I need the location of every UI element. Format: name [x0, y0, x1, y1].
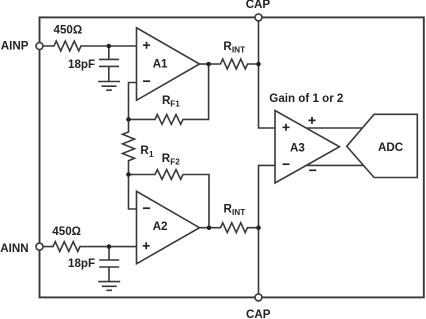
junction A1 output — [206, 62, 211, 67]
terminal CAP top — [255, 14, 262, 21]
A3 output − polarity mark — [309, 169, 316, 171]
wire A3 positive output to ADC — [306, 127, 362, 129]
junction A2 output — [207, 225, 212, 230]
wire A3 negative output to ADC — [306, 164, 363, 166]
ADC block — [347, 114, 418, 177]
wire A2 output from apex — [200, 227, 210, 229]
wire A1 output from apex — [200, 63, 209, 65]
svg-text:F1: F1 — [170, 99, 180, 108]
svg-text:INT: INT — [232, 45, 245, 54]
resistor 450Ω (top) with AINP wire to A1 + input — [43, 41, 137, 51]
wire outer boundary loop — [40, 17, 424, 297]
junction AINN RC node — [107, 244, 112, 249]
svg-text:CAP: CAP — [246, 0, 271, 11]
junction AINP RC node — [107, 44, 112, 49]
wire A1 inverting input to feedback node — [129, 83, 137, 120]
junction feedback node RF2/R1 — [126, 172, 131, 177]
svg-text:A2: A2 — [153, 220, 168, 233]
resistor RINT (top) from A1 output to CAP line — [209, 59, 259, 69]
A1 pin + mark — [143, 42, 150, 49]
resistor RINT (bottom) from A2 output to CAP line — [209, 223, 259, 233]
svg-text:1: 1 — [149, 150, 154, 159]
terminal CAP bottom — [255, 294, 262, 301]
capacitor 18pF (bottom) — [99, 247, 119, 282]
wire CAP bottom rail to A3 inverting input — [259, 165, 276, 297]
resistor RF2 with wire to A2 output — [129, 170, 210, 228]
A3 pin − mark — [283, 163, 290, 165]
A3 pin + mark — [283, 124, 290, 131]
svg-text:AINN: AINN — [0, 242, 28, 255]
svg-text:18pF: 18pF — [68, 58, 95, 71]
A3 output + polarity mark — [309, 117, 316, 124]
svg-text:F2: F2 — [170, 157, 180, 166]
terminal AINN — [36, 243, 43, 250]
op-amp A3 — [275, 111, 340, 184]
svg-text:INT: INT — [232, 208, 245, 217]
A2 pin − mark — [143, 207, 150, 209]
svg-text:ADC: ADC — [378, 141, 404, 154]
resistor R1 — [123, 119, 135, 174]
capacitor 18pF (top) — [99, 46, 119, 82]
svg-text:CAP: CAP — [246, 308, 271, 319]
ground (bottom) — [98, 282, 120, 291]
ground (top) — [98, 82, 120, 91]
A1 pin − mark — [143, 80, 150, 82]
terminal AINP — [36, 43, 43, 50]
resistor 450Ω (bottom) with AINN wire to A2 + input — [43, 242, 137, 252]
svg-text:450Ω: 450Ω — [52, 225, 81, 238]
op-amp A1 — [137, 28, 200, 101]
junction feedback node RF1/R1 — [126, 117, 131, 122]
wire CAP top rail to A3 noninverting input — [259, 17, 276, 128]
A2 pin + mark — [143, 242, 150, 249]
junction RINT top at CAP line — [256, 62, 261, 67]
svg-text:Gain of 1 or 2: Gain of 1 or 2 — [269, 92, 343, 105]
svg-text:450Ω: 450Ω — [54, 24, 83, 37]
svg-text:A1: A1 — [153, 58, 168, 71]
op-amp A2 — [137, 191, 200, 263]
junction RINT bottom at CAP line — [256, 225, 261, 230]
resistor RF1 with wire to A1 output — [129, 64, 209, 124]
wire A2 inverting input to feedback node — [129, 175, 137, 210]
svg-text:AINP: AINP — [1, 40, 29, 53]
svg-text:A3: A3 — [290, 142, 305, 155]
svg-text:18pF: 18pF — [68, 257, 95, 270]
